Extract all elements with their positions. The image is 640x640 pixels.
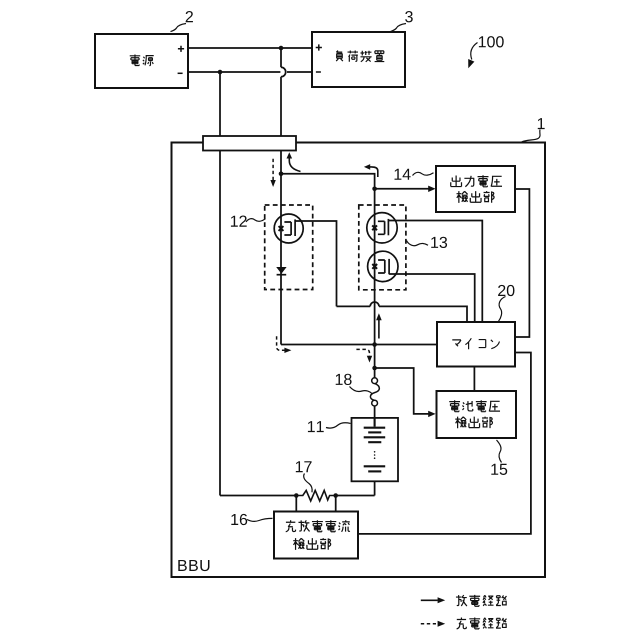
- label BBU: [178, 560, 209, 571]
- node A below connector: [279, 172, 284, 177]
- wire node to microcontroller left: [375, 344, 437, 346]
- connector rectangle: [203, 136, 296, 151]
- load device box 3: [312, 32, 405, 87]
- plus minus terminals: [178, 44, 322, 73]
- leader 2: [171, 24, 187, 32]
- label leaders: [171, 24, 541, 522]
- text 負荷装置: [336, 51, 384, 62]
- leader 1: [522, 130, 541, 143]
- BBU enclosure box 1: [172, 143, 546, 578]
- leader 3: [390, 24, 407, 32]
- power supply box 2: [95, 34, 188, 88]
- label 15: [491, 464, 507, 475]
- wire top positive: [188, 47, 312, 49]
- wire gate mosfet13 lower to microcontroller: [389, 274, 475, 322]
- battery 11 box: [352, 418, 399, 481]
- wire mosfet12 branch bottom horizontal: [281, 344, 375, 346]
- node top negative: [218, 70, 223, 75]
- text 検出部 line2 of box14: [457, 191, 495, 203]
- wire resistor leg left down: [295, 496, 297, 512]
- leader 13: [407, 241, 429, 246]
- output voltage detector box 14: [436, 166, 515, 212]
- leader 20: [499, 297, 506, 322]
- label 12: [231, 216, 247, 227]
- discharge flow arrow at node B: [370, 167, 378, 177]
- text 検出部 line2 of box16: [293, 538, 330, 550]
- leader 18: [350, 387, 373, 394]
- label 2: [186, 11, 193, 22]
- charge flow arrow at switch: [356, 349, 369, 356]
- mosfet Q13 lower: [368, 251, 398, 281]
- text 検出部 line2 of box15: [455, 417, 492, 429]
- arrowhead of 100 leader: [468, 59, 474, 68]
- label 1: [538, 118, 545, 129]
- charge flow arrow at mosfet12 bottom: [277, 336, 285, 350]
- arrowhead into output voltage detector: [428, 186, 435, 192]
- leader 15: [497, 440, 502, 463]
- wire bottom horizontal to resistor: [220, 495, 296, 497]
- label 3: [405, 11, 413, 22]
- wire battery bottom: [374, 472, 376, 496]
- current detector box 16: [274, 512, 358, 559]
- wire resistor to battery bottom corner: [336, 495, 375, 497]
- discharge flow arrow at connector: [289, 158, 300, 172]
- label 20: [498, 285, 514, 296]
- node C mosfet branches join: [372, 342, 377, 347]
- mosfet Q13 dashed box: [359, 205, 406, 290]
- text 放電経路 legend1: [456, 595, 507, 606]
- diode D12 body diode: [276, 267, 286, 274]
- text 充放電電流 line1 of box16: [286, 520, 350, 532]
- switch 18: [370, 378, 379, 406]
- mosfet Q12: [274, 214, 303, 243]
- arrowhead into battery voltage detector: [428, 411, 435, 417]
- leader 16: [247, 518, 273, 521]
- node D battery top: [372, 366, 377, 371]
- wire output voltage detector right to microcontroller right: [514, 189, 529, 337]
- wire arrow line to output voltage detector: [375, 188, 430, 190]
- wire vertical from + junction with hop: [281, 48, 286, 136]
- node resistor right: [333, 493, 338, 498]
- wires drawn first: [188, 48, 531, 534]
- junction dots: [218, 46, 377, 498]
- text 充電経路 legend2: [457, 617, 507, 628]
- wire below connector to node: [280, 151, 282, 174]
- label 13: [431, 237, 447, 248]
- wire main vertical through mosfet13 branch: [374, 189, 376, 378]
- wire mosfet12 branch vertical: [280, 174, 282, 345]
- wire node to battery voltage detector with corners: [375, 368, 430, 414]
- leader 11: [326, 423, 351, 428]
- wire gate mosfet12 to microcontroller: [295, 221, 467, 322]
- wire bottom negative left: [188, 71, 280, 73]
- microcontroller box 20: [437, 322, 515, 367]
- leader 14: [413, 172, 434, 175]
- mosfet Q13 upper: [367, 213, 397, 243]
- label 14: [395, 169, 411, 180]
- resistor R17: [296, 490, 335, 501]
- wire microcontroller bottom to battery voltage detector: [473, 367, 475, 392]
- label 18: [336, 374, 352, 385]
- battery voltage detector box 15: [437, 391, 517, 438]
- wire microcontroller right to current detector: [358, 353, 531, 534]
- discharge flow arrow battery up: [378, 320, 380, 339]
- label 11: [308, 421, 324, 432]
- leader 100 curved arrow: [471, 43, 478, 60]
- node top positive: [279, 46, 284, 51]
- wire resistor leg right down: [335, 496, 337, 512]
- label 17: [296, 461, 312, 472]
- mosfet Q12 dashed box: [265, 205, 313, 290]
- text 出力電圧 line1 of box14: [451, 175, 502, 187]
- leader 17: [304, 474, 312, 493]
- battery ellipsis dots: [374, 451, 376, 459]
- wire switch to battery: [374, 406, 376, 427]
- node B vdet branch: [372, 187, 377, 192]
- battery plates: [364, 418, 386, 472]
- wire bottom negative right: [287, 71, 312, 73]
- charge flow arrow down at connector: [272, 159, 274, 180]
- text 電源: [130, 54, 154, 65]
- label 16: [231, 514, 247, 525]
- wire gate mosfet13 upper to microcontroller: [388, 221, 482, 323]
- wire vertical from - junction: [219, 72, 221, 496]
- leader 12: [246, 219, 266, 222]
- text 電池電圧 line1 of box15: [449, 400, 500, 411]
- text マイコン: [452, 338, 499, 349]
- legend charge arrow: [421, 623, 436, 625]
- label 100: [479, 36, 504, 47]
- node resistor left: [294, 493, 299, 498]
- wire node to corner to vdet junction: [281, 174, 375, 189]
- legend discharge arrow: [421, 599, 438, 601]
